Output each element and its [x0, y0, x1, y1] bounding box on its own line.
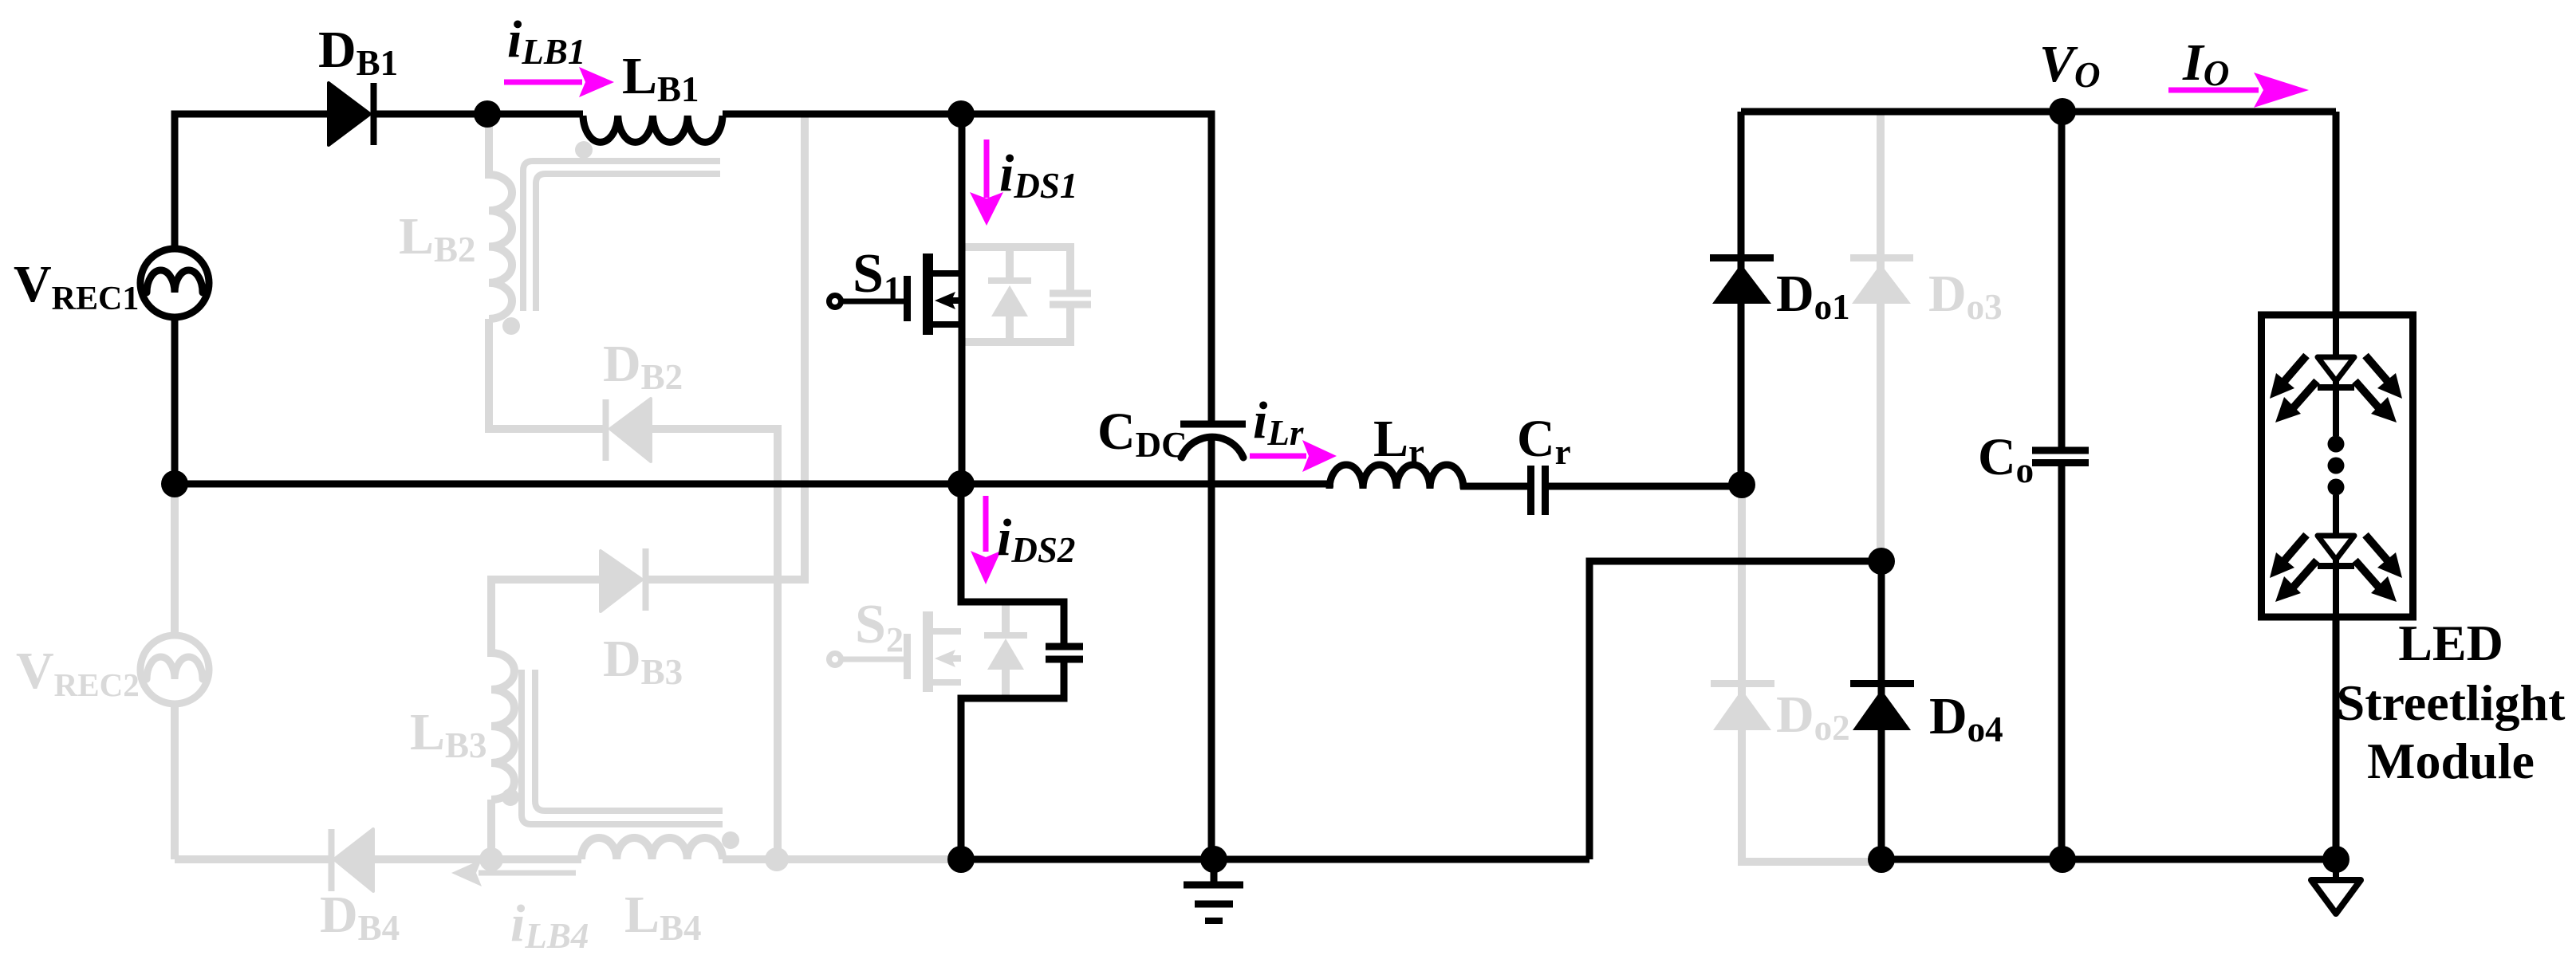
wire S1 source vertical: [959, 273, 966, 484]
wire into LED2: [2333, 495, 2339, 536]
wire LB1 to CDC corner: [723, 111, 1211, 118]
diode DB1: [329, 83, 370, 145]
LED D2: [2318, 536, 2354, 560]
wire output rail corner down to LED module: [2333, 112, 2340, 315]
node E (Do3/Do4): [1868, 548, 1895, 575]
transistor S2 (gray MOSFET): [829, 654, 841, 666]
wire VREC2 top lead: [171, 484, 179, 635]
wire DB1 to node: [373, 111, 583, 118]
wire S1 drain vertical: [959, 114, 966, 273]
LED2 light arrows: [2282, 535, 2390, 588]
coupled core lines LB3/LB4: [522, 670, 723, 824]
wire bottom rail (S2 to corner): [961, 856, 1589, 863]
voltage source VREC1: [140, 249, 209, 317]
inductor Lr: [1329, 465, 1463, 489]
diode DB2: [603, 399, 609, 461]
diode Do1: [1738, 112, 1745, 485]
diode DB3: [601, 551, 642, 611]
node A (DB1/LB1/LB2): [474, 100, 501, 128]
ground (output, open triangle): [2333, 859, 2339, 880]
diode Do2: [1742, 485, 1881, 862]
wire VREC2 bottom lead: [171, 704, 179, 859]
wire VREC1 bottom lead: [171, 317, 179, 484]
wire into LED1: [2333, 315, 2339, 357]
wire CDC branch vertical bottom: [1208, 437, 1215, 859]
wire middle rail: [175, 481, 1333, 488]
transistor S1 (MOSFET): [829, 296, 841, 308]
current arrow iLB1: [504, 80, 582, 85]
capacitor Cr: [1527, 466, 1534, 515]
wire corner up to Do4 node: [1589, 561, 1881, 859]
diode DB4: [329, 829, 335, 891]
polarity dot LB4: [722, 831, 739, 849]
wire LB3 up to DB3: [491, 580, 601, 657]
wire node to LB2: [485, 114, 493, 179]
node (Co / bottom rail): [2049, 846, 2076, 873]
wire bottom rail DB4 to LB4: [373, 855, 581, 863]
capacitor Co branch: [2058, 112, 2066, 447]
body diode + capacitor of S1 (gray box): [962, 247, 1070, 292]
wire output top rail: [1741, 108, 2336, 116]
coupled core lines LB1/LB2: [523, 161, 720, 311]
wire LB2 to DB2: [489, 319, 603, 429]
capacitor CDC: [1180, 421, 1246, 428]
inductor LB4: [581, 838, 723, 859]
capacitor (S2 parallel cap): [1046, 643, 1083, 650]
node B (S1 drain): [947, 100, 975, 128]
ground (under CDC): [1211, 859, 1218, 885]
current arrow iDS1: [984, 140, 990, 198]
polarity dot LB3: [502, 788, 519, 806]
wire bottom rail right: [1881, 856, 2336, 863]
series dots: [2328, 436, 2345, 453]
wire top rail left: [171, 111, 329, 118]
inductor LB2: [489, 175, 512, 319]
LED1 light arrows: [2282, 356, 2390, 408]
wire LB3 to rail: [487, 800, 495, 859]
current arrow iLr: [1250, 454, 1306, 459]
wire VREC1 top lead: [171, 114, 179, 249]
current arrow iDS2: [983, 496, 989, 552]
node (junction LB3/bottom rail): [479, 847, 503, 871]
svg-text:Module: Module: [2367, 733, 2535, 789]
wire bottom rail LB4 to node: [723, 855, 961, 863]
node C (mid rail / S1-S2): [947, 470, 975, 497]
LED streetlight module box: [2262, 315, 2413, 617]
node (junction DB2 branch/bottom rail): [765, 847, 789, 871]
wire CDC branch vertical top: [1208, 111, 1215, 422]
wire Lr to Cr: [1460, 483, 1527, 490]
svg-text:LED: LED: [2398, 615, 2503, 671]
diode Do4: [1878, 561, 1885, 859]
polarity dot LB2: [502, 317, 520, 335]
current arrow iLB4 (gray): [479, 871, 576, 876]
inductor LB3: [491, 653, 514, 800]
polarity dot LB1: [575, 141, 593, 159]
inductor LB1: [583, 116, 723, 142]
wire DB3 to top rail: [645, 114, 805, 580]
diode Do3: [1877, 112, 1885, 561]
node (LED / bottom rail): [2322, 846, 2350, 873]
node (VREC1 / mid rail): [161, 470, 188, 497]
node VO: [2049, 98, 2076, 125]
node (Do4 / bottom rail): [1868, 846, 1895, 873]
svg-text:Streetlight: Streetlight: [2337, 674, 2566, 731]
current arrow IO: [2168, 88, 2259, 93]
voltage source VREC2: [140, 635, 209, 704]
node (CDC / ground): [1200, 846, 1227, 873]
node D (Cr/Do1/Do2): [1728, 471, 1755, 498]
body diode of S2: [1002, 602, 1010, 635]
S2 snubber path (node C to cap to ground): [961, 484, 1064, 647]
node (S2 source / bottom rail): [947, 846, 975, 873]
wire LED module to ground: [2333, 617, 2340, 859]
LED D1: [2318, 357, 2354, 381]
wire DB2 anode down to bottom rail: [651, 429, 778, 859]
wire Cr to node D: [1549, 483, 1742, 490]
wire gray bottom rail left: [175, 855, 329, 863]
